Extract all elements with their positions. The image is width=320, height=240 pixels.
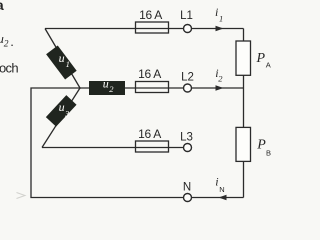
svg-text:i: i — [215, 5, 218, 19]
arrow i1 — [216, 26, 224, 32]
node star point — [79, 87, 81, 89]
svg-text:3: 3 — [64, 108, 69, 118]
wire right vertical — [243, 29, 245, 198]
svg-text:L2: L2 — [181, 71, 194, 83]
wire neutral: star point left, down, along bottom — [31, 88, 184, 198]
terminal N — [184, 194, 192, 202]
wire u1 branch diagonal — [45, 29, 80, 89]
load PB (rectangle) — [236, 127, 251, 161]
faint pencil mark near bottom-left corner — [17, 193, 26, 199]
svg-text:och: och — [0, 61, 18, 76]
svg-text:1: 1 — [219, 13, 223, 23]
svg-text:.: . — [10, 34, 14, 49]
svg-text:16 A: 16 A — [139, 8, 162, 22]
svg-text:P: P — [256, 137, 266, 152]
source u1 (black rectangle, rotated) — [46, 46, 77, 80]
svg-text:u: u — [59, 51, 65, 65]
svg-text:u: u — [59, 100, 65, 114]
fuse F2 16A on L2 — [136, 82, 169, 93]
svg-text:A: A — [266, 60, 271, 69]
source u2 (black rectangle) — [89, 81, 125, 95]
wire L2 horizontal — [80, 87, 184, 89]
svg-text:16 A: 16 A — [138, 127, 161, 141]
svg-text:a: a — [0, 0, 4, 13]
terminal L2 — [184, 84, 192, 92]
fuse F3 16A on L3 — [136, 141, 169, 152]
load PA (rectangle) — [236, 41, 251, 75]
svg-text:2: 2 — [218, 74, 223, 84]
svg-text:2: 2 — [4, 40, 9, 50]
svg-text:B: B — [266, 149, 271, 158]
wire u3 branch diagonal — [42, 88, 80, 148]
wire L3 horizontal — [42, 147, 184, 149]
arrow i2 — [216, 85, 224, 91]
svg-text:L3: L3 — [180, 132, 193, 144]
svg-text:u: u — [103, 76, 109, 90]
svg-text:L1: L1 — [180, 10, 193, 22]
svg-text:N: N — [183, 182, 191, 194]
fuse F1 16A on L1 — [136, 22, 169, 33]
wire L1 horizontal — [45, 28, 184, 30]
arrow iN — [219, 195, 227, 201]
terminal L1 — [184, 25, 192, 33]
svg-text:16 A: 16 A — [138, 67, 161, 81]
svg-text:i: i — [215, 175, 218, 189]
svg-text:N: N — [219, 185, 224, 194]
svg-text:1: 1 — [66, 59, 70, 69]
source u3 (black rectangle, rotated) — [46, 95, 77, 126]
svg-text:P: P — [256, 51, 266, 66]
terminal L3 — [184, 144, 192, 152]
svg-text:2: 2 — [109, 84, 114, 94]
